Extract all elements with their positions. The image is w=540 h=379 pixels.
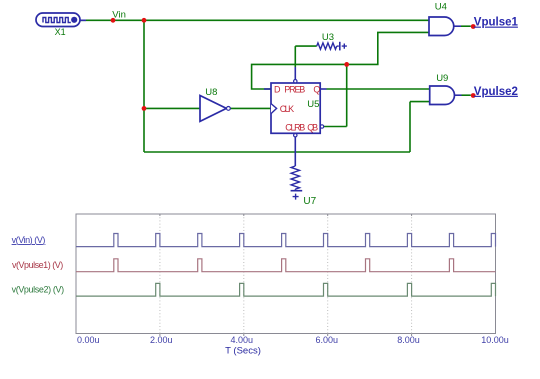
trace v(Vpulse1): [76, 259, 496, 272]
svg-text:D: D: [274, 85, 281, 95]
wire U3 left lead: [295, 45, 316, 47]
wire U8 output to CLK: [230, 107, 271, 109]
wire bottom rail to U9 lower input: [144, 102, 430, 152]
junction dot Vpulse1: [471, 24, 476, 29]
junction dot Vin 2: [142, 18, 147, 23]
svg-text:6.00u: 6.00u: [316, 335, 339, 345]
svg-text:T (Secs): T (Secs): [225, 346, 261, 357]
wire Vin top rail: [80, 19, 429, 21]
wire U8 input: [144, 107, 200, 109]
junction dot Vpulse2: [471, 93, 476, 98]
svg-text:2.00u: 2.00u: [150, 335, 173, 345]
svg-text:U9: U9: [436, 73, 448, 84]
gridline 6u: [327, 214, 329, 334]
D flip-flop U5: [264, 67, 327, 137]
svg-text:X1: X1: [55, 27, 66, 37]
svg-text:Q: Q: [313, 85, 320, 95]
svg-text:U3: U3: [322, 32, 334, 43]
svg-text:QB: QB: [307, 122, 318, 132]
svg-text:v(Vpulse2) (V): v(Vpulse2) (V): [12, 285, 65, 295]
wire U4 output: [454, 25, 461, 27]
svg-text:10.00u: 10.00u: [481, 335, 509, 345]
junction dot D net: [344, 62, 349, 67]
buffer U8: [200, 96, 230, 122]
svg-text:U7: U7: [303, 196, 316, 207]
svg-text:Vpulse1: Vpulse1: [474, 17, 519, 29]
gridline 4u: [243, 214, 245, 334]
svg-text:CLK: CLK: [280, 104, 295, 114]
svg-text:PREB: PREB: [284, 85, 305, 95]
axis tick marks: [160, 214, 412, 336]
waveform plot frame: [76, 214, 496, 334]
wire PREB branch: [294, 46, 296, 67]
gridline 8u: [411, 214, 413, 334]
wire QB branch up to D net: [324, 64, 347, 126]
resistor U3: [317, 42, 347, 51]
wire Q to U9 upper input: [327, 88, 431, 90]
wire U9 output: [455, 94, 462, 96]
trace v(Vin): [76, 234, 496, 247]
svg-text:Vpulse2: Vpulse2: [474, 86, 518, 98]
trace v(Vpulse2): [76, 283, 496, 296]
gridline 2u: [159, 214, 161, 334]
junction dot Vin 1: [111, 18, 116, 23]
pulse source X1: [36, 13, 86, 27]
svg-text:8.00u: 8.00u: [397, 335, 420, 345]
AND gate U9: [430, 86, 455, 105]
svg-text:4.00u: 4.00u: [231, 335, 254, 345]
svg-text:U4: U4: [435, 2, 447, 13]
AND gate U4: [429, 17, 454, 36]
svg-text:v(Vpulse1) (V): v(Vpulse1) (V): [12, 260, 63, 270]
junction dot U8 input: [142, 106, 147, 111]
resistor U7: [291, 137, 303, 200]
svg-text:U8: U8: [205, 87, 217, 98]
svg-text:0.00u: 0.00u: [77, 335, 100, 345]
svg-text:v(Vin) (V): v(Vin) (V): [12, 235, 46, 245]
wire Vin vertical branch: [143, 20, 145, 152]
svg-text:U5: U5: [307, 99, 319, 110]
svg-text:CLRB: CLRB: [285, 122, 305, 132]
wire D net to U4 lower input: [252, 32, 429, 89]
